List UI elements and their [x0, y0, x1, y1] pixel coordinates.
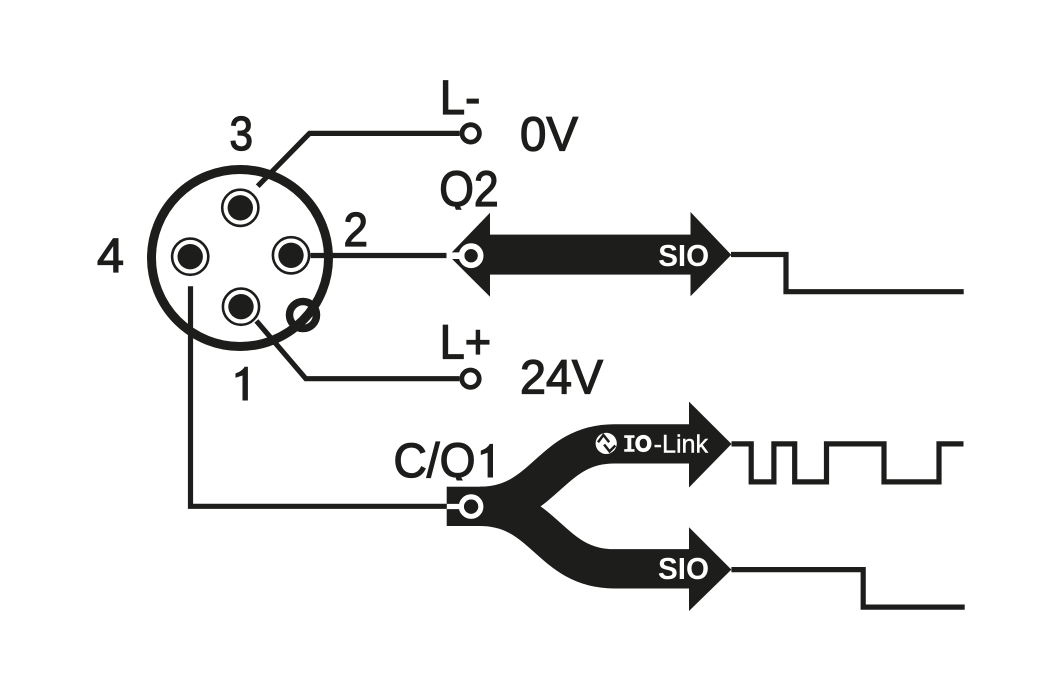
Q2 terminal ring: [462, 246, 481, 265]
wire pin1 to L+ terminal: [256, 321, 459, 379]
lower SIO arrow head: [689, 527, 731, 611]
C/Q1 terminal slot: [447, 504, 464, 509]
connector keying notch: [290, 302, 317, 329]
Q2 SIO output wire: [731, 255, 964, 292]
svg-text:24V: 24V: [520, 350, 604, 404]
pin 1: [223, 289, 259, 325]
IO-Link logo roundel: [596, 433, 617, 454]
IO-Link logo lower chevron: [604, 445, 615, 452]
Q2 arrow right head: [691, 212, 732, 296]
C/Q1 terminal ring: [461, 497, 480, 516]
L- terminal: [462, 125, 479, 142]
Q2 arrow left head: [449, 213, 490, 297]
fork lower band to SIO arrow: [480, 506, 691, 568]
wire pin4 to C/Q1 terminal: [191, 286, 447, 506]
svg-text:Q2: Q2: [439, 161, 499, 217]
svg-text:-Link: -Link: [654, 431, 709, 459]
L+ terminal: [462, 370, 479, 387]
svg-text:2: 2: [344, 203, 369, 257]
label 1 of C/Q1 (custom helvetica-style glyph): [481, 444, 493, 478]
SIO output wire lower: [731, 570, 964, 608]
wire pin3 to L- terminal: [258, 133, 460, 186]
pin 3: [222, 190, 258, 226]
C/Q1 fork: [447, 402, 732, 611]
label Q2: [439, 161, 499, 217]
Q2 terminal slot: [448, 252, 465, 259]
svg-text:L+: L+: [440, 316, 492, 370]
wire pin2 to Q2 terminal: [311, 253, 447, 258]
C/Q1 terminal block: [447, 487, 502, 526]
IO-Link data waveform: [732, 444, 964, 482]
IO-Link wordmark IO (slab serif): [624, 435, 651, 452]
label pin 1 (custom helvetica-style glyph): [236, 367, 248, 401]
connector body circle: [152, 170, 329, 347]
Q2 terminal center dot: [465, 249, 478, 262]
C/Q1 terminal center dot: [464, 500, 478, 514]
svg-text:L-: L-: [440, 71, 481, 125]
fork upper band to IO-Link arrow: [480, 444, 691, 506]
svg-text:3: 3: [230, 107, 254, 161]
pin 2: [273, 237, 309, 273]
svg-text:SIO: SIO: [658, 238, 709, 273]
svg-text:SIO: SIO: [658, 551, 709, 586]
Q2 arrow body bar: [487, 235, 692, 275]
Q2 SIO double-headed arrow: [448, 212, 732, 297]
pin 4: [172, 239, 208, 275]
svg-text:0V: 0V: [520, 108, 579, 162]
IO-Link arrow head: [689, 402, 732, 488]
svg-text:C/Q: C/Q: [394, 434, 476, 488]
svg-text:4: 4: [97, 229, 124, 283]
label C/Q: [394, 434, 476, 488]
IO-Link logo upper chevron: [598, 435, 609, 442]
